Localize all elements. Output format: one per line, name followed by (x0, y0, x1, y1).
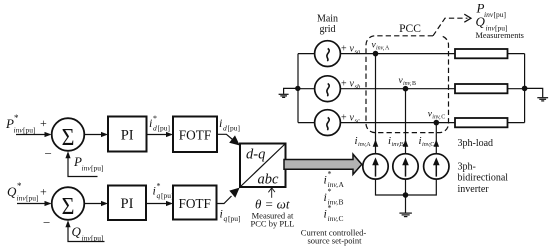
svg-text:*: * (328, 204, 332, 213)
svg-text:Q: Q (476, 14, 486, 29)
node i_inv,A label (355, 135, 372, 148)
svg-text:FOTF: FOTF (178, 196, 211, 211)
wire phase B bus (340, 88, 455, 90)
svg-text:inv,: inv, (432, 115, 441, 121)
svg-text:inv: inv (82, 164, 92, 173)
PI controller block row1 (108, 117, 147, 152)
svg-text:inv: inv (82, 234, 92, 243)
wire feedback row1 (65, 151, 97, 176)
summing junction S1 (52, 118, 85, 151)
FOTF block row1 (173, 117, 217, 153)
node +vsc label (341, 113, 360, 125)
wire feedback row2 (65, 220, 104, 241)
PI controller block row2 (108, 186, 146, 221)
node i_inv,C label (419, 135, 435, 148)
note 3ph-bidirectional inverter label (458, 162, 509, 195)
svg-text:FOTF: FOTF (179, 128, 212, 143)
svg-text:Measurements: Measurements (476, 31, 524, 40)
svg-text:Σ: Σ (62, 193, 75, 220)
ground G2 inverter (399, 195, 412, 217)
svg-text:inv,: inv, (403, 81, 412, 87)
node i_q[pu] label (220, 207, 241, 224)
svg-text:q: q (157, 191, 161, 200)
svg-text:B: B (400, 141, 404, 148)
svg-text:+: + (40, 116, 47, 130)
node v_inv,C label (428, 110, 446, 121)
svg-text:PI: PI (121, 128, 134, 144)
node P_inv[pu] measurement label (476, 1, 507, 20)
svg-text:[pu]: [pu] (161, 191, 174, 200)
resistor R3 load phase C (455, 118, 525, 127)
svg-text:source set-point: source set-point (307, 236, 362, 246)
svg-text:*: * (328, 170, 332, 179)
node Q_inv[pu] measurement label (476, 14, 508, 33)
svg-text:sa: sa (355, 49, 361, 56)
svg-text:+: + (341, 79, 347, 90)
node i*_inv,B label (324, 187, 344, 207)
svg-text:i: i (324, 190, 327, 204)
wire S2 to PI2 (85, 201, 109, 206)
svg-text:d: d (153, 124, 157, 133)
svg-text:*: * (153, 114, 157, 123)
svg-text:i: i (149, 116, 152, 130)
wire PI2 to FOTF2 (146, 201, 173, 206)
svg-text:i: i (220, 207, 223, 221)
svg-text:*: * (17, 181, 22, 191)
svg-text:inv,: inv, (328, 214, 339, 223)
svg-text:3ph-load: 3ph-load (458, 138, 494, 149)
node i*_d[pu] label (149, 114, 170, 133)
svg-text:−: − (43, 215, 50, 230)
svg-text:+: + (341, 44, 347, 55)
junction dot phase B (403, 86, 409, 92)
svg-text:[pu]: [pu] (228, 214, 241, 223)
svg-text:*: * (157, 182, 161, 191)
wire theta input arrow (268, 188, 275, 198)
node P_inv[pu] feedback label (73, 154, 104, 173)
junction dot phase A (373, 51, 379, 57)
note Main grid (317, 14, 338, 36)
voltage source Vsb (298, 76, 340, 102)
node +vsa label (341, 44, 360, 56)
svg-text:3ph-: 3ph- (458, 162, 476, 173)
voltage source Vsa (298, 41, 340, 67)
node +vsb label (341, 79, 361, 91)
svg-text:sc: sc (355, 118, 361, 125)
wire S1 to PI1 (85, 132, 109, 137)
svg-text:*: * (14, 113, 19, 123)
svg-text:A: A (339, 180, 345, 189)
wire FOTF2 to dq block (217, 188, 240, 204)
wire inverter leg A (373, 54, 379, 154)
svg-text:sb: sb (355, 84, 362, 91)
current source IB (393, 154, 418, 179)
svg-text:inv: inv (484, 10, 494, 19)
svg-text:i: i (324, 173, 327, 187)
node i*_inv,A label (324, 170, 345, 190)
svg-text:bidirectional: bidirectional (458, 173, 509, 184)
wire inverter bottom rail (376, 179, 437, 195)
wire input row2 (17, 201, 52, 206)
svg-text:[pu]: [pu] (228, 124, 241, 133)
node v_inv,B label (399, 76, 417, 87)
wire input row1 (16, 132, 52, 137)
wire FOTF1 to dq block (217, 134, 240, 145)
wire inverter leg B (403, 89, 409, 154)
svg-text:C: C (339, 214, 344, 223)
svg-text:+: + (40, 185, 47, 199)
node i_d[pu] label (219, 116, 240, 133)
svg-text:PI: PI (121, 196, 134, 212)
resistor R1 load phase A (455, 49, 525, 58)
node Q* reference label (7, 181, 39, 203)
svg-text:B: B (412, 81, 416, 87)
svg-text:A: A (385, 46, 390, 52)
note measured at PCC by PLL (251, 211, 295, 229)
wire left bus of sources (297, 54, 299, 123)
svg-text:inv,: inv, (376, 46, 385, 52)
junction dot phase C (434, 120, 440, 126)
svg-text:i: i (219, 116, 222, 130)
wire load right bus (524, 54, 526, 123)
voltage source Vsc (298, 110, 340, 136)
svg-text:Q: Q (7, 184, 17, 199)
resistor R2 load phase B (455, 84, 525, 93)
wire phase A bus (340, 53, 455, 55)
svg-text:[pu]: [pu] (23, 126, 36, 135)
svg-text:Σ: Σ (62, 124, 75, 151)
svg-text:[pu]: [pu] (91, 164, 104, 173)
ground G3 load (525, 88, 549, 101)
wire PI1 to FOTF1 (147, 132, 174, 137)
block arrow dq to inverter (284, 154, 362, 174)
svg-text:grid: grid (319, 24, 335, 35)
svg-text:θ = ωt: θ = ωt (255, 197, 290, 212)
ground G1 main grid (279, 86, 301, 98)
wire inverter leg C (434, 123, 440, 154)
svg-text:Q: Q (72, 224, 82, 239)
junction dot bottom rail (403, 192, 409, 198)
svg-text:i: i (153, 184, 156, 198)
svg-text:C: C (441, 115, 445, 121)
summing junction S2 (52, 187, 85, 220)
junction dot load bus (522, 86, 528, 92)
current source IC (424, 154, 449, 179)
node i*_inv,C label (324, 204, 344, 224)
note current controlled source set-point (301, 228, 367, 246)
FOTF block row2 (173, 186, 217, 220)
svg-text:[pu]: [pu] (494, 10, 507, 19)
svg-text:C: C (430, 141, 434, 148)
wire phase C bus (340, 122, 455, 124)
svg-text:d: d (223, 124, 227, 133)
svg-text:i: i (324, 207, 327, 221)
svg-text:−: − (45, 146, 52, 161)
svg-text:inv: inv (14, 126, 24, 135)
svg-text:PCC: PCC (399, 23, 421, 35)
svg-text:q: q (224, 214, 228, 223)
current source IA (363, 154, 388, 179)
svg-text:inv: inv (17, 194, 27, 203)
svg-text:Main: Main (317, 14, 338, 25)
svg-text:B: B (339, 198, 344, 207)
svg-text:A: A (366, 141, 371, 148)
svg-text:[pu]: [pu] (91, 234, 104, 243)
PCC dashed boundary (366, 36, 449, 133)
svg-text:[pu]: [pu] (26, 194, 39, 203)
svg-text:inverter: inverter (458, 184, 490, 195)
node i*_q[pu] label (153, 182, 174, 201)
svg-text:[pu]: [pu] (158, 124, 171, 133)
node P* reference label (5, 113, 36, 135)
svg-text:PCC by PLL: PCC by PLL (251, 219, 295, 229)
svg-text:*: * (328, 187, 332, 196)
node i_inv,B label (388, 135, 404, 148)
svg-text:abc: abc (258, 172, 280, 188)
dq-abc transform block U1 (240, 144, 286, 188)
svg-text:+: + (341, 113, 347, 124)
svg-text:d-q: d-q (246, 147, 265, 163)
wire dashed measurement arrow (433, 14, 471, 36)
node Q_inv[pu] feedback label (72, 224, 104, 243)
node v_inv,A label (372, 41, 391, 52)
